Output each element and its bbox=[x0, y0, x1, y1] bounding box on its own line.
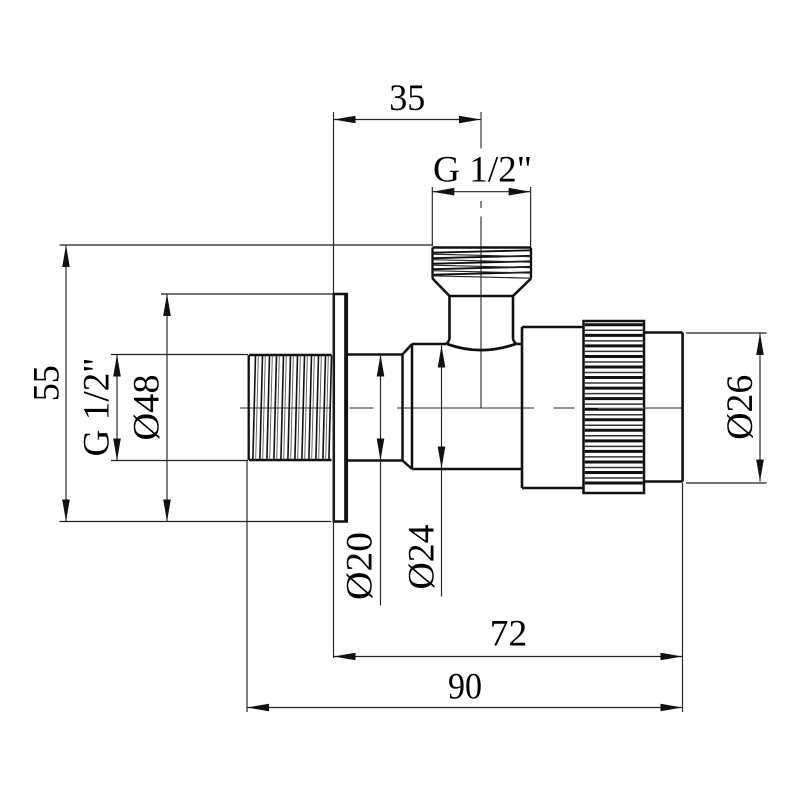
dimension G1/2 top arrowheads bbox=[432, 188, 454, 196]
top outlet thread G1/2 bbox=[433, 248, 532, 279]
svg-text:Ø48: Ø48 bbox=[127, 375, 168, 441]
dimension d26 extension lines bbox=[686, 333, 767, 483]
left thread crest lines bbox=[253, 356, 332, 460]
dimension d48 arrowheads bbox=[163, 294, 171, 316]
svg-text:Ø24: Ø24 bbox=[402, 525, 443, 590]
valve body d24 bbox=[412, 344, 522, 469]
knurl stripes bbox=[585, 325, 643, 483]
top thread crest echo lines bbox=[433, 254, 532, 278]
dimension 90 left extension line bbox=[246, 461, 248, 713]
svg-text:Ø20: Ø20 bbox=[340, 532, 381, 600]
dimension d48 extension line bbox=[161, 293, 334, 295]
left thread crest echo lines bbox=[256, 356, 329, 460]
dimension d26 line bbox=[759, 333, 761, 482]
outlet chamfer bbox=[433, 279, 532, 297]
saddle intersection curve bbox=[447, 344, 517, 350]
dimension 72 arrowheads bbox=[334, 653, 356, 661]
dimension 35 extension lines bbox=[333, 112, 335, 658]
dimension d20 leader line bbox=[380, 355, 382, 606]
dimension 35 arrowheads bbox=[334, 116, 356, 124]
svg-text:55: 55 bbox=[27, 365, 68, 401]
dimension d24 arrowheads bbox=[438, 346, 446, 368]
outlet neck bbox=[446, 296, 517, 344]
knurl echo stripes bbox=[585, 330, 643, 478]
svg-text:90: 90 bbox=[448, 667, 482, 708]
dimension G1/2 top extension lines bbox=[432, 187, 530, 247]
dimension 55 arrowheads bbox=[62, 245, 70, 267]
svg-text:G 1/2": G 1/2" bbox=[433, 150, 532, 191]
knurled handle ring bbox=[584, 321, 645, 493]
dimension 72 line bbox=[334, 656, 683, 658]
wall flange escutcheon bbox=[334, 294, 347, 522]
dimension 90 arrowheads bbox=[247, 704, 269, 712]
handle cap bbox=[644, 333, 683, 482]
dimension 35 line bbox=[334, 119, 482, 121]
top thread crest lines bbox=[433, 250, 532, 274]
dimension d48 line bbox=[166, 294, 168, 522]
dimension G1/2 left extension lines bbox=[111, 355, 248, 461]
neck section d20 bbox=[348, 355, 403, 461]
centerline through knurl (gray) bbox=[598, 407, 644, 409]
svg-text:35: 35 bbox=[389, 78, 425, 119]
svg-text:Ø26: Ø26 bbox=[720, 375, 761, 440]
svg-text:G 1/2": G 1/2" bbox=[77, 358, 118, 457]
dimension G1/2 left arrowheads bbox=[113, 355, 121, 377]
dimension G1/2 left line bbox=[116, 355, 118, 461]
centerline vertical outlet axis bbox=[480, 112, 482, 408]
step chamfer to body bbox=[403, 344, 413, 469]
left male thread G1/2 body bbox=[249, 355, 332, 460]
dimension d24 leader line bbox=[441, 346, 443, 597]
svg-text:72: 72 bbox=[490, 614, 528, 655]
dimension d26 arrowheads bbox=[756, 333, 764, 355]
dimension 72 right extension line bbox=[682, 483, 684, 712]
centerline horizontal axis bbox=[240, 407, 683, 409]
dimension 55 extension lines bbox=[60, 245, 433, 522]
dimension d20 arrowheads bbox=[377, 355, 385, 377]
dimension 90 line bbox=[247, 707, 683, 709]
dimension 55 line bbox=[65, 245, 67, 522]
bonnet section bbox=[522, 327, 584, 488]
dimension G1/2 top line bbox=[432, 191, 530, 193]
